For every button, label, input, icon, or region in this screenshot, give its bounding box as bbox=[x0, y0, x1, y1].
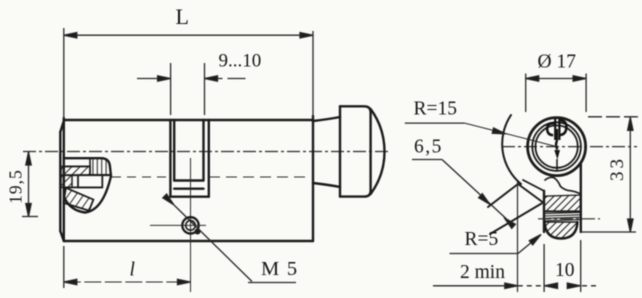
cam middle white plate bbox=[78, 175, 102, 187]
keyway right loop bbox=[559, 120, 566, 135]
keyway bottom flare bbox=[554, 150, 560, 160]
band divider bbox=[544, 211, 581, 213]
leader 6,5 bbox=[412, 160, 515, 229]
dimension 10 bbox=[544, 240, 600, 292]
crosshair centerlines bbox=[502, 146, 637, 148]
dimension 9...10 extension lines bbox=[137, 63, 250, 115]
svg-text:R=5: R=5 bbox=[465, 229, 499, 250]
dimension 19,5 bbox=[22, 152, 38, 217]
svg-text:L: L bbox=[176, 4, 189, 29]
dimension 2 min bbox=[433, 283, 544, 288]
keyway tail line bbox=[556, 159, 558, 170]
slot vertical centerline down to M5 hole bbox=[190, 158, 192, 292]
dimension 33 bbox=[580, 117, 638, 232]
leader R=15 bbox=[405, 123, 557, 147]
svg-text:Ø 17: Ø 17 bbox=[538, 52, 577, 73]
plug circles bbox=[528, 118, 586, 176]
M5 hole horizontal centerline bbox=[150, 224, 206, 226]
cam upper hatched bar bbox=[61, 166, 90, 175]
keyway stem bbox=[556, 140, 557, 150]
M5 screw hole circles bbox=[182, 217, 198, 233]
svg-text:R=15: R=15 bbox=[414, 99, 458, 120]
svg-text:2 min: 2 min bbox=[460, 262, 505, 283]
leader M 5 bbox=[163, 194, 296, 283]
foot left side bbox=[543, 191, 545, 232]
band3 top edge bbox=[544, 221, 578, 223]
svg-text:M 5: M 5 bbox=[261, 258, 297, 280]
cam outline bbox=[64, 158, 111, 212]
dimension diameter 17 bbox=[526, 74, 586, 113]
keyway left hook bbox=[547, 123, 555, 135]
pocket wall upper-left bbox=[488, 184, 518, 207]
cam plate bottom line bbox=[64, 186, 103, 188]
fine thread band2 bbox=[544, 212, 581, 220]
cam lower hatched wedge bbox=[64, 188, 94, 211]
svg-text:33: 33 bbox=[607, 156, 628, 181]
svg-text:l: l bbox=[130, 260, 135, 281]
clip slot inner walls bbox=[174, 120, 203, 189]
keyway column bbox=[555, 118, 559, 140]
2min extension line bbox=[517, 182, 519, 292]
hatched section band3 bbox=[545, 222, 578, 239]
pocket wall B bbox=[490, 204, 542, 235]
foot rounded bottom R5 bbox=[545, 222, 578, 239]
svg-text:19,5: 19,5 bbox=[6, 169, 26, 204]
squiggle transition bbox=[545, 177, 581, 193]
cam top white strip line bbox=[64, 165, 90, 167]
leader R=5 bbox=[450, 232, 543, 253]
tangent edge line of foot (right of slot) bbox=[209, 176, 307, 178]
R15 arc bbox=[502, 115, 521, 184]
knob neck bbox=[313, 117, 340, 187]
hatched section band1 bbox=[544, 195, 580, 211]
svg-text:6,5: 6,5 bbox=[414, 137, 443, 158]
pocket wall to foot bbox=[518, 184, 544, 203]
cylinder body outline bbox=[60, 116, 313, 241]
dimension l bbox=[64, 246, 191, 288]
foot right side bbox=[580, 163, 582, 232]
cam vertical-hatch block bbox=[90, 158, 111, 175]
axis centerline bbox=[23, 151, 391, 153]
knob cap bbox=[340, 106, 385, 196]
svg-text:10: 10 bbox=[555, 260, 575, 281]
cam mid divider line bbox=[64, 174, 111, 176]
clip slot outer walls bbox=[170, 120, 208, 197]
svg-text:9...10: 9...10 bbox=[219, 51, 262, 72]
screw hole axis dash-dot bbox=[538, 218, 600, 220]
dimension L bbox=[64, 28, 313, 119]
tangent line from arc to foot corner bbox=[523, 180, 544, 191]
cam left lower hatch bbox=[61, 175, 72, 187]
tangent edge line of foot (left of slot) bbox=[112, 176, 170, 178]
keyway center fill bbox=[556, 129, 558, 140]
